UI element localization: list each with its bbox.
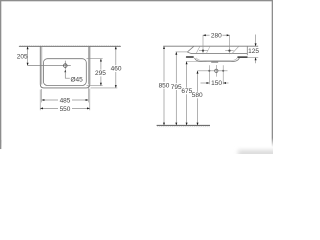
drain circle vertical [215,65,217,77]
dim 675 arrow down [186,123,188,126]
dim 295 arrow down [100,83,102,86]
tap hole left crosshair [199,50,208,52]
svg-text:205: 205 [17,53,28,60]
dim 675 arrow up [186,62,188,65]
dim 205 line [27,47,29,66]
svg-text:485: 485 [60,97,71,104]
left chamfer [187,46,194,53]
faucet hole circle [64,64,68,68]
svg-text:795: 795 [171,84,182,91]
tap hole right circle [228,49,230,51]
dim 460 line [115,47,117,66]
dim 850 line [163,46,165,81]
dim 795 extension [176,51,188,53]
svg-text:125: 125 [248,48,259,55]
dim 150 right tail [223,82,228,84]
dim 550 line [40,107,58,109]
basin outer rim outline [40,46,90,88]
drain boss [212,61,218,64]
dim 280 arrow right [227,34,230,36]
svg-text:280: 280 [211,33,222,40]
rim hatch strokes [196,46,200,53]
right end edge [246,46,248,55]
border frame left [0,0,1,149]
rim underside line [191,53,247,55]
tap hole right crosshair [225,50,233,52]
mounting bar right (dark) [237,56,247,58]
dim 295 arrow up [100,59,102,62]
dim 850 arrow down [163,123,165,126]
faucet hole crosshair vertical [64,61,66,70]
rim top long line [163,45,258,47]
dim 550 extension right [89,89,91,111]
floor line [157,124,210,126]
svg-text:460: 460 [111,66,122,73]
svg-text:295: 295 [95,70,106,77]
holes centerline [198,70,228,72]
dim 125 arrow down-pointing [255,43,257,46]
leader line [65,72,70,79]
dim 675 line [186,62,188,88]
dim 550 extension left [39,90,41,111]
dim 460 arrow up [115,46,117,49]
svg-text:580: 580 [192,92,203,99]
floor hatch [157,126,210,127]
dim 125 extension bottom [248,57,258,59]
dim 580 arrow up [197,71,199,74]
dim 125 line bottom segment [255,57,257,63]
bottom right faint shading [238,150,280,158]
dim 150 left tail [201,82,210,84]
border frame right [272,0,273,138]
dim 295 extension top [87,58,103,60]
tap hole right: vertical (280 ext) [229,35,231,54]
dim 580 arrow down [197,123,199,126]
leader arrow to hole [64,70,66,73]
dim 485 extension right [87,86,89,102]
dim 485 line [42,99,58,101]
dim 485 extension left [41,89,43,102]
tap hole left: vertical (280 ext) [202,35,204,54]
label 125 [248,48,259,54]
dim 550 arrow right [87,107,90,109]
drain circle [215,69,218,72]
svg-text:Ø45: Ø45 [70,76,83,83]
dim 295 extension bottom [87,85,103,87]
border frame top [0,0,273,1]
dim 850 arrow up [163,46,165,49]
dim 150 arrow left-pointing [223,82,226,84]
dim 125 arrow up-pointing [255,57,257,60]
rim inner line right [87,46,89,84]
dim 485 arrow left [42,99,45,101]
dim 295 line [100,59,102,70]
dim 460 arrow down [115,85,117,88]
dim 205 arrow down [27,63,29,66]
bowl underside inner curve [196,58,237,61]
bowl underside outer curve [195,58,240,62]
fixing hole left dot [208,70,210,72]
inner bowl outline [43,59,86,86]
fixing hole left vertical [208,65,210,84]
dim 280 arrow left [203,34,206,36]
wall line [19,45,121,47]
dim 795 line [175,52,177,83]
dim 795 arrow down [175,123,177,126]
dim 125 line top segment [255,35,257,47]
svg-text:150: 150 [211,80,222,87]
rim inner line left [41,46,43,84]
dim 280 line [203,34,210,36]
svg-text:850: 850 [159,82,170,89]
dim 205 arrow up [27,46,29,49]
dim 460 extension bottom [91,87,118,89]
mounting bar left (dark) [186,56,194,58]
faucet hole crosshair horizontal (links 205 dim to hole) [28,65,71,67]
dim 580 line [197,71,199,92]
wall hatch [19,45,121,46]
fixing hole right vertical [222,65,224,84]
dim 795 arrow up [175,52,177,55]
dim 675 extension [186,61,207,63]
dim 485 arrow right [86,99,89,101]
svg-text:550: 550 [60,106,71,113]
dim 550 arrow left [40,107,43,109]
tap hole left circle [202,49,204,51]
fixing hole right dot [222,70,224,72]
dim 150 arrow right-pointing [207,82,210,84]
